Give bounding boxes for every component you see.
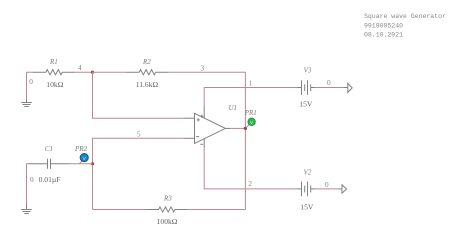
wire bottom feedback through R3	[93, 209, 146, 211]
junction output node	[244, 127, 247, 130]
wire C1 to junction	[51, 163, 70, 165]
capacitor C1	[28, 159, 51, 169]
wire node4 down and to op-amp +input	[93, 72, 185, 118]
op-amp U1	[195, 107, 231, 148]
svg-text:R3: R3	[163, 195, 172, 203]
svg-text:R2: R2	[142, 58, 151, 66]
svg-text:10kΩ: 10kΩ	[46, 80, 63, 89]
wire inverting node: vertical and to -input (net 5)	[93, 138, 185, 209]
svg-text:0: 0	[30, 175, 34, 184]
wire R2 right to corner and down (net 3)	[168, 72, 245, 209]
svg-text:0: 0	[327, 78, 331, 87]
resistor R2	[126, 70, 168, 75]
svg-text:2: 2	[248, 179, 252, 188]
wire bottom supply: op-amp pin to battery V2 (net 2)	[204, 148, 297, 189]
op-amp +input pin stub	[185, 117, 195, 119]
svg-text:15V: 15V	[299, 100, 313, 109]
svg-text:PR2: PR2	[74, 145, 88, 153]
svg-text:08.10.2021: 08.10.2021	[364, 32, 403, 39]
wire ground to R1	[27, 72, 35, 99]
svg-text:9919005240: 9919005240	[364, 22, 403, 29]
svg-text:0.01µF: 0.01µF	[39, 175, 61, 184]
resistor R3	[146, 207, 188, 212]
svg-text:U1: U1	[229, 104, 238, 112]
svg-text:V2: V2	[304, 168, 312, 176]
on-page connector net 0 (top)	[344, 83, 353, 92]
svg-text:15V: 15V	[300, 203, 314, 212]
svg-text:Square wave Generator: Square wave Generator	[364, 13, 446, 20]
title text	[364, 13, 446, 39]
junction node 4	[91, 71, 94, 74]
probe PR1	[246, 118, 255, 128]
junction capacitor node	[91, 162, 94, 165]
battery V3	[297, 80, 315, 95]
svg-text:0: 0	[325, 180, 329, 189]
op-amp -input pin stub	[185, 137, 195, 139]
svg-text:R1: R1	[49, 58, 58, 66]
wire V3 to connector	[315, 87, 343, 89]
svg-text:0: 0	[29, 77, 33, 86]
ground (top-left, net 0)	[21, 99, 32, 107]
ground (bottom-left, net 0)	[21, 204, 32, 214]
wire top supply: op-amp pin to battery V3 (net 1)	[204, 88, 297, 108]
svg-text:100kΩ: 100kΩ	[157, 217, 178, 226]
svg-text:C1: C1	[45, 145, 53, 153]
svg-text:5: 5	[137, 130, 141, 139]
svg-text:PR1: PR1	[244, 109, 257, 117]
wire node4 to R2	[93, 71, 127, 73]
svg-text:4: 4	[78, 63, 82, 72]
wire op-amp output to net vertical	[231, 127, 246, 129]
on-page connector net 0 (bottom)	[338, 185, 347, 193]
resistor R1	[33, 70, 75, 75]
wire V2 to connector	[315, 188, 338, 190]
svg-text:11.6kΩ: 11.6kΩ	[136, 80, 159, 89]
wire C1 left to ground	[27, 164, 29, 204]
wire R1 to node 4	[75, 71, 92, 73]
probe PR2	[80, 154, 89, 164]
battery V2	[297, 182, 315, 197]
svg-text:3: 3	[201, 63, 205, 72]
svg-text:V3: V3	[304, 67, 312, 75]
svg-text:1: 1	[249, 78, 253, 87]
